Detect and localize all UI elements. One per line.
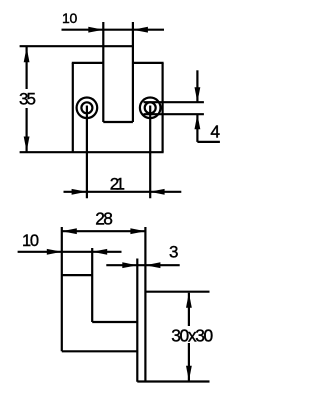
square body right edge xyxy=(162,63,164,152)
arrow: top 10-dim right (points left, tip at 132.9,29.7) xyxy=(133,27,148,33)
4-dim shaft upper xyxy=(196,70,198,102)
arrow: 3-dim right (points left, tip at 145.4,265.2) xyxy=(145,262,160,268)
arrow: 4-dim up (tip at 197.4,114.2) xyxy=(195,114,201,129)
square top edge left segment xyxy=(72,62,104,64)
back edge V1 / 28-dim extension xyxy=(61,227,63,351)
square top edge right segment xyxy=(133,62,164,64)
svg-text:35: 35 xyxy=(19,90,36,109)
3-dim line xyxy=(106,264,179,266)
10-dim line xyxy=(62,29,165,31)
21-dim line xyxy=(64,191,182,193)
svg-text:21: 21 xyxy=(110,175,125,194)
slot wall V3 / 3-dim extension xyxy=(136,259,138,382)
back bottom edge H3 xyxy=(62,350,138,352)
arrow: 30x30-dim up (tip at 188.9,292.7) xyxy=(186,293,192,308)
4-dim shaft lower xyxy=(196,114,198,142)
4-dim tangent line lower xyxy=(144,113,204,115)
svg-text:3: 3 xyxy=(169,243,178,262)
center tab right edge / 10-dim extension xyxy=(132,22,134,122)
step edge V2 / 10-dim extension xyxy=(91,248,93,322)
front face V4 / 28 and 3-dim extension xyxy=(144,227,146,382)
center tab left edge / 10-dim extension xyxy=(102,22,104,122)
arrow: 10-dim bottom right (points left, tip at 92.2,251.8) xyxy=(92,249,107,255)
shelf edge H2 xyxy=(92,321,137,323)
svg-text:10: 10 xyxy=(62,10,78,26)
arrow: 28-dim left (points left, tip at 61.8,231.2) xyxy=(62,228,77,234)
svg-text:28: 28 xyxy=(95,209,113,229)
arrow: 4-dim down (tip at 197.4,102.2) xyxy=(195,87,201,102)
30x30-dim shaft upper xyxy=(188,293,190,326)
front top extension H4 / 30x30-dim xyxy=(145,291,209,293)
35-dim shaft lower xyxy=(26,108,28,152)
arrow: 35-dim down (tip at 26.6,151.8) xyxy=(24,137,30,152)
svg-text:30x30: 30x30 xyxy=(171,326,213,346)
arrow: 35-dim up (tip at 26.6,46.8) xyxy=(24,47,30,62)
svg-text:10: 10 xyxy=(22,232,39,250)
left hole center drop line (21-dim extension) xyxy=(86,106,88,199)
right hole outer xyxy=(140,98,161,119)
arrow: top 10-dim left (points right, tip at 103.3,29.7) xyxy=(88,27,103,33)
arrow: 30x30-dim down (tip at 188.9,380.7) xyxy=(186,366,192,381)
slot bottom xyxy=(103,121,133,123)
4-dim tangent line upper xyxy=(144,101,204,103)
bottom edge long line (incl. 35-dim extension) xyxy=(20,151,164,153)
arrow: 10-dim bottom left (points right, tip at 61.8,251.8) xyxy=(47,249,62,255)
arrow: 3-dim left (points right, tip at 137.3,265.2) xyxy=(122,262,137,268)
arrow: 28-dim right (points right, tip at 145.4,231.2) xyxy=(130,228,145,234)
4-dim leader leg xyxy=(197,141,220,143)
left hole inner xyxy=(81,102,92,113)
arrow: 21-dim left (points right, tip at 86.6,191.8) xyxy=(72,189,87,195)
35-dim shaft upper xyxy=(26,47,28,89)
28-dim line xyxy=(62,230,146,232)
10-dim line (bottom) xyxy=(18,251,122,253)
right hole inner xyxy=(145,102,156,113)
left hole outer xyxy=(77,98,98,119)
top edge H1 xyxy=(62,274,92,276)
svg-text:4: 4 xyxy=(210,122,220,142)
arrow: 21-dim right (points left, tip at 149.6,191.8) xyxy=(150,189,165,195)
square body left edge xyxy=(72,63,74,152)
bottom edge H5 / 30x30-dim extension xyxy=(137,380,209,382)
30x30-dim shaft lower xyxy=(188,343,190,381)
right hole center drop line (21-dim extension) xyxy=(149,106,151,199)
tab top long line (incl. 35-dim extension) xyxy=(20,45,133,47)
